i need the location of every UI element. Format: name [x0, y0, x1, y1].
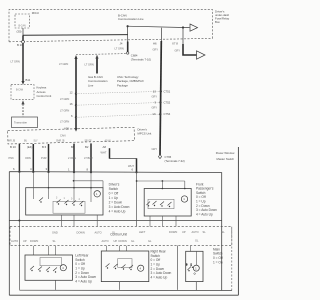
svg-text:Master Switch: Master Switch [217, 157, 235, 161]
main switch contact dots [188, 267, 193, 272]
svg-text:GRY: GRY [152, 94, 158, 98]
wire J4 thick segment [127, 42, 129, 53]
driver switch branch wire [73, 180, 103, 188]
passenger switch inner block [148, 199, 174, 208]
connector label C765 [165, 155, 185, 163]
svg-text:WR JB: WR JB [8, 141, 16, 143]
pin label B11 with arrow into keyless box [21, 78, 30, 85]
svg-text:Driver's: Driver's [109, 183, 120, 187]
svg-text:A8: A8 [103, 145, 107, 149]
under-dash fuse/relay box (dashed, contains MICU) [9, 10, 213, 42]
svg-text:AUTO: AUTO [11, 239, 18, 243]
node C752 [155, 101, 171, 105]
main switch ground mark [194, 273, 196, 275]
svg-text:J4: J4 [120, 41, 123, 45]
left rear contact dots [31, 270, 56, 273]
right rear contacts [106, 264, 134, 269]
main switch ground stub [195, 282, 197, 291]
svg-text:LT GRN: LT GRN [11, 59, 20, 63]
main switch circle [193, 265, 199, 271]
passenger branch drops [162, 181, 184, 189]
wire X7 drop [182, 28, 184, 45]
fuse/relay box label [215, 9, 230, 24]
master switch dashed right edge [231, 229, 233, 291]
svg-text:(Terminals 7-10): (Terminals 7-10) [131, 57, 151, 61]
svg-text:GRY: GRY [153, 47, 159, 51]
passenger branch wire [136, 172, 185, 226]
svg-text:WHT: WHT [101, 151, 107, 155]
driver switch contacts [39, 198, 84, 205]
svg-text:C752: C752 [164, 101, 171, 105]
wire PNK (pin B10) [18, 144, 20, 172]
svg-text:LT GRN: LT GRN [115, 47, 124, 51]
wire into driver box (PUR) [48, 172, 50, 199]
svg-text:MPCS Unit: MPCS Unit [138, 131, 152, 135]
svg-text:LT GRN: LT GRN [60, 119, 69, 123]
wire B10 drop from MICU [22, 35, 24, 82]
svg-text:B-CAN: B-CAN [16, 89, 23, 92]
gas B-CAN dashed stub with up arrow [95, 55, 98, 74]
control unit terminal labels row 2 [11, 239, 199, 244]
node C754 [152, 112, 170, 116]
passenger switch motor circle [181, 196, 187, 202]
svg-text:LEFT: LEFT [139, 230, 146, 234]
svg-text:1 = Up: 1 = Up [109, 196, 119, 200]
dashed bottom edge of under-dash region [9, 38, 213, 41]
wire main switch circle feed [195, 252, 197, 266]
keyless access control unit box [11, 85, 34, 100]
MPCS unit label [138, 127, 152, 135]
node C751 [153, 89, 171, 93]
svg-text:B 10: B 10 [17, 43, 23, 47]
svg-text:SMR JB: SMR JB [56, 141, 65, 143]
right rear ground stub [118, 282, 120, 290]
page right border [237, 147, 239, 295]
control unit terminal labels row 1 [52, 230, 225, 235]
wire into driver box (LT BLU) [90, 172, 92, 202]
Power Window Master Switch label [216, 151, 236, 161]
connector C684 terminal [127, 52, 129, 54]
svg-text:Box: Box [215, 20, 220, 24]
svg-text:2 = Down: 2 = Down [109, 201, 123, 205]
arrow connector lower [197, 51, 206, 59]
connector C765 terminal diamond [158, 155, 161, 159]
connector ring B10 [22, 40, 25, 43]
svg-text:GL: GL [148, 239, 152, 243]
node junction X7 [182, 26, 184, 28]
left rear switch feed wires [33, 246, 55, 255]
wire PNK ground run [18, 172, 20, 290]
svg-text:AUTO: AUTO [102, 239, 109, 243]
wire WHT (pin A8) jog [110, 148, 137, 172]
svg-text:2 ORN: 2 ORN [68, 156, 76, 160]
svg-text:Power Window: Power Window [216, 151, 236, 155]
svg-text:GRY: GRY [152, 147, 158, 151]
wire upper b-can branch [128, 26, 190, 27]
svg-text:Package: Package [117, 83, 128, 87]
svg-text:LT GRN: LT GRN [85, 62, 94, 66]
svg-text:SL: SL [222, 230, 226, 234]
wire H6 upper segment [160, 28, 162, 41]
node pin 16 [70, 102, 78, 106]
svg-text:B-CAN: B-CAN [19, 24, 26, 27]
svg-text:DOWN: DOWN [119, 239, 127, 243]
USA package note [117, 75, 144, 88]
svg-text:3 = Auto Down: 3 = Auto Down [109, 205, 130, 209]
left rear ground stub [55, 280, 57, 290]
right rear switch feed wires [106, 246, 126, 251]
svg-text:Line: Line [88, 83, 94, 87]
left rear motor circle [60, 265, 66, 271]
keyless access label [37, 86, 52, 99]
left rear switch box [25, 255, 72, 280]
main switch label [213, 247, 223, 264]
svg-text:1 = On: 1 = On [213, 260, 223, 264]
svg-text:MICU: MICU [32, 11, 39, 15]
svg-text:AS-W: AS-W [105, 140, 112, 143]
svg-text:10: 10 [152, 112, 156, 116]
node dots on switch assembly top edge [18, 171, 137, 174]
svg-text:AUTO: AUTO [192, 230, 199, 234]
right rear contact dots [107, 267, 132, 270]
wire LT BLU (pin B2) [90, 143, 92, 172]
passenger switch stubs to divider [150, 216, 176, 227]
wire into driver box (ORN2) [73, 172, 75, 201]
wire from MICU block to B-CAN line [22, 28, 24, 35]
svg-text:GRY: GRY [175, 49, 181, 53]
svg-text:Transmitter: Transmitter [14, 121, 27, 125]
left rear contacts [30, 266, 57, 271]
driver switch box [26, 188, 103, 215]
svg-text:12: 12 [70, 90, 74, 94]
svg-text:UP: UP [23, 239, 27, 243]
svg-text:SL: SL [53, 239, 57, 243]
svg-text:(Terminals 7-32): (Terminals 7-32) [165, 159, 185, 163]
in-line connector dashed C751 [76, 91, 161, 93]
arrow connector (to another sheet) top [190, 24, 198, 31]
driver switch label [109, 183, 130, 214]
node dots passenger box top entries [162, 188, 186, 190]
front passenger switch label [196, 182, 217, 216]
driver switch stubs to divider [61, 215, 97, 227]
connector label C684 [131, 53, 151, 61]
wire driver b-can branch (x76) with up arrow [74, 55, 77, 128]
wire X7 GRY thick [183, 44, 197, 55]
Gas B-CAN Communication Line label [88, 75, 108, 88]
Driver's MPCS unit dashed box [8, 127, 135, 144]
node pin 6 [71, 114, 77, 119]
svg-text:ORN: ORN [25, 156, 31, 160]
svg-text:DOWN: DOWN [169, 230, 177, 234]
svg-text:BU: BU [24, 141, 28, 143]
svg-text:4 = Auto Up: 4 = Auto Up [151, 275, 168, 279]
ground bus line [19, 289, 231, 291]
svg-text:Communication Line: Communication Line [118, 17, 144, 21]
svg-text:SLY: SLY [34, 141, 39, 143]
svg-text:LT GRN: LT GRN [59, 62, 68, 66]
svg-text:CAN: CAN [60, 134, 66, 138]
control unit dashed box [10, 226, 232, 245]
svg-text:SL: SL [203, 230, 207, 234]
svg-text:B11: B11 [26, 78, 31, 82]
svg-text:LT GRN: LT GRN [60, 97, 69, 101]
svg-text:LT BLU: LT BLU [84, 156, 93, 160]
dashed transmitter link with up arrow [21, 100, 24, 116]
svg-text:GL: GL [195, 239, 199, 243]
left rear inner block [40, 258, 62, 266]
svg-text:(30): (30) [17, 29, 22, 33]
svg-text:LT GRN: LT GRN [60, 108, 69, 112]
node pin 12 [70, 90, 78, 95]
svg-text:SR OF: SR OF [85, 141, 93, 143]
pin label A26 with arrow into box [64, 126, 78, 131]
svg-text:UP: UP [114, 239, 118, 243]
transmitter box [12, 117, 38, 128]
svg-text:DOWN: DOWN [30, 239, 38, 243]
passenger switch contact dots [148, 205, 170, 207]
svg-text:(E4): (E4) [27, 145, 32, 149]
wire dashed link C684 terminals [76, 54, 126, 55]
switch assembly outer box [9, 172, 221, 296]
svg-text:10: 10 [153, 89, 157, 93]
svg-text:Switch: Switch [109, 187, 119, 191]
svg-text:0 = Off: 0 = Off [109, 192, 119, 196]
right rear motor circle [138, 265, 144, 271]
in-line connector dashed C752 [76, 103, 161, 106]
node dots driver box top entries [48, 187, 92, 189]
front passenger switch box [144, 189, 191, 217]
right rear inner block [118, 259, 132, 268]
svg-text:GRY: GRY [152, 106, 158, 110]
wire PUR (pin B6) [48, 144, 50, 172]
svg-text:Control Unit: Control Unit [37, 94, 52, 98]
svg-text:DOWN: DOWN [77, 230, 85, 234]
wire ORN (pin E4) [32, 144, 34, 172]
svg-text:4 = Auto Up: 4 = Auto Up [109, 210, 126, 214]
main switch feed wire [190, 246, 192, 252]
main switch box [186, 251, 203, 281]
driver switch position ticks [56, 198, 81, 202]
in-line connector dashed C754 [76, 114, 160, 117]
left rear switch label [75, 254, 96, 284]
svg-text:AUTO: AUTO [95, 230, 102, 234]
MPCS bottom function labels [8, 140, 111, 143]
svg-text:GL: GL [112, 230, 116, 234]
driver switch contact dots [40, 201, 82, 206]
svg-text:B 10: B 10 [10, 145, 16, 149]
wire GRY main drop (H6 to C765) [160, 41, 161, 155]
page bottom border [9, 294, 238, 296]
wire ORN (pin B9) [73, 144, 75, 172]
right rear switch box [101, 251, 149, 282]
svg-text:C754: C754 [164, 112, 171, 116]
svg-text:X7 8: X7 8 [172, 41, 178, 45]
node on divider [18, 220, 20, 222]
right rear switch label [151, 250, 172, 280]
svg-text:UP: UP [182, 230, 186, 234]
switch row divider line [9, 220, 221, 222]
MICU inner block [15, 14, 30, 28]
svg-text:4 = Auto Up: 4 = Auto Up [196, 212, 213, 216]
driver switch inner block [53, 201, 85, 213]
svg-text:PNK: PNK [9, 156, 15, 160]
long wire left of main switch [177, 246, 179, 290]
main switch contacts [186, 265, 193, 270]
svg-text:PUR: PUR [41, 156, 47, 160]
node junction J4 top [127, 25, 129, 27]
svg-text:C751: C751 [164, 89, 171, 93]
svg-text:GL: GL [131, 239, 135, 243]
svg-text:4 = Auto Up: 4 = Auto Up [75, 279, 92, 283]
driver switch motor circle [94, 191, 100, 197]
passenger switch contacts [147, 201, 172, 206]
svg-text:16: 16 [70, 102, 74, 106]
B-CAN Communication Line label [118, 14, 144, 21]
svg-text:A26: A26 [64, 126, 69, 130]
svg-text:B2: B2 [85, 145, 89, 149]
svg-text:B 6: B 6 [42, 145, 47, 149]
wire into driver box (ORN) [32, 172, 34, 199]
svg-text:GND: GND [52, 230, 58, 234]
svg-text:H6: H6 [153, 41, 157, 45]
wire B-CAN communication line (horizontal) [23, 34, 128, 37]
wire J4 drop (LT GRN) [127, 26, 129, 41]
